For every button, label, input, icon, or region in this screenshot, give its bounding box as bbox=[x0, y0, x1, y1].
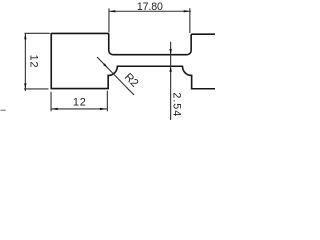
dimension 2.54: lower arrowhead pointing up bbox=[169, 66, 171, 71]
cropped artifact line bottom-left image edge bbox=[0, 109, 5, 111]
dimension 12 (bottom): dimension line bbox=[51, 108, 107, 110]
dimension 12 (left): bottom arrowhead bbox=[24, 83, 26, 89]
svg-text:R2: R2 bbox=[122, 71, 141, 90]
R2 leader line bbox=[97, 57, 134, 95]
dimension 17.80: dimension line bbox=[109, 10, 191, 12]
dimension 12 (bottom): right extension line bbox=[106, 91, 108, 112]
dimension 12 (left): bottom extension line bbox=[24, 88, 49, 90]
R2 leader arrowhead bbox=[103, 63, 108, 68]
dimension 12 (bottom): left arrowhead bbox=[51, 108, 57, 110]
dimension 12 (left): top extension line bbox=[24, 32, 49, 34]
svg-text:12: 12 bbox=[27, 55, 39, 69]
dimension 17.80: left arrowhead bbox=[109, 10, 115, 12]
dimension 12 (left): top arrowhead bbox=[24, 34, 26, 40]
dimension 2.54: upper arrowhead pointing down bbox=[169, 49, 171, 54]
svg-text:2.54: 2.54 bbox=[171, 92, 183, 117]
dimension 17.80: extension line right bbox=[189, 8, 191, 33]
specimen top profile bbox=[51, 33, 215, 54]
dimension 17.80: extension line left bbox=[108, 8, 110, 32]
dimension 2.54 (right): dimension line bbox=[170, 42, 172, 121]
dimension 12 (bottom): left extension line bbox=[50, 92, 52, 112]
svg-text:17.80: 17.80 bbox=[137, 1, 163, 13]
specimen bottom profile with R2 fillets bbox=[51, 33, 215, 89]
dimension 12 (bottom): right arrowhead bbox=[100, 108, 106, 110]
dimension 17.80: right arrowhead bbox=[184, 10, 190, 12]
svg-text:12: 12 bbox=[73, 97, 87, 109]
dimension 12 (left): dimension line bbox=[24, 33, 26, 91]
